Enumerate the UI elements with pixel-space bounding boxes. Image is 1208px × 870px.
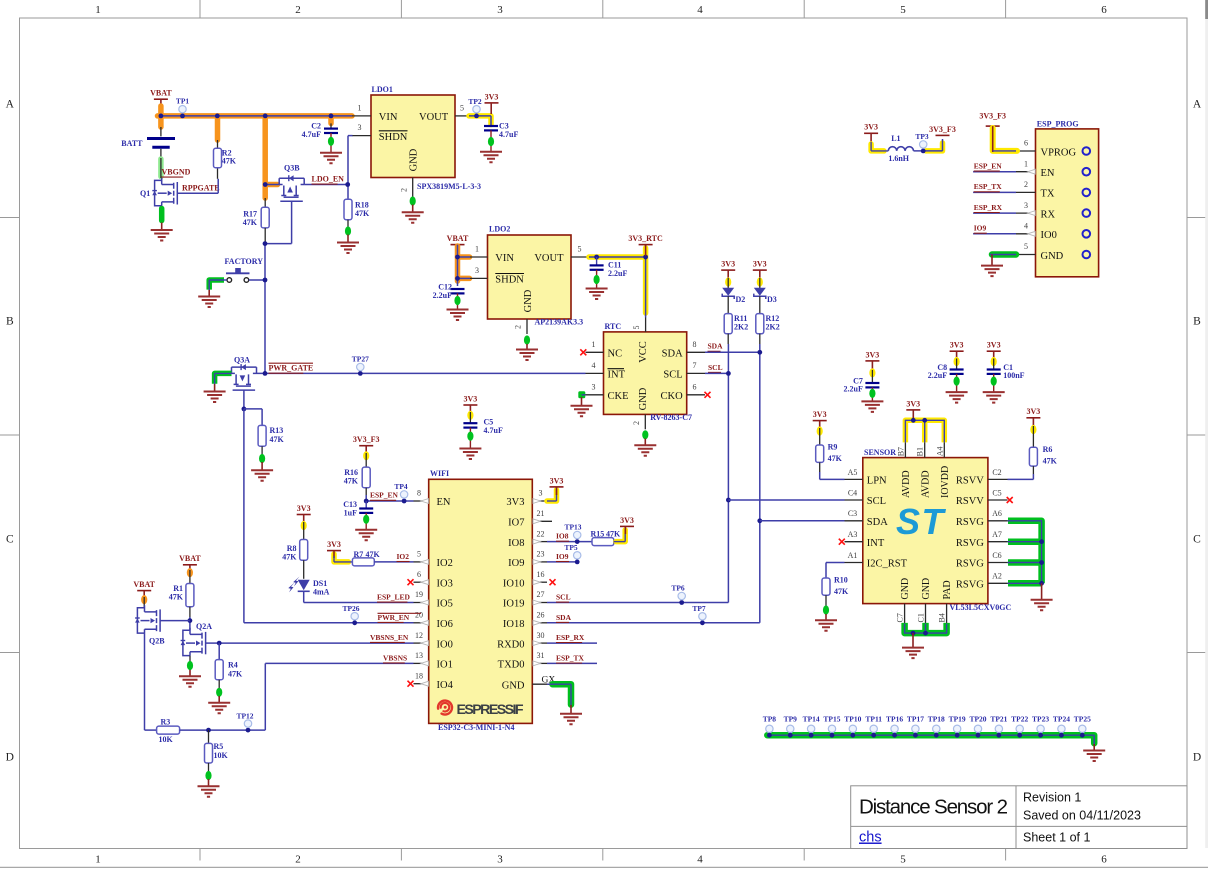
svg-text:ESP_EN: ESP_EN [974,162,1003,171]
wire Q3B source [265,184,279,186]
ground Q3A [204,392,226,403]
svg-text:C: C [1193,534,1201,546]
svg-text:GND: GND [921,578,932,600]
ground R5 [198,786,220,797]
title block [851,786,1187,849]
svg-text:RSVV: RSVV [956,476,984,487]
svg-text:TP27: TP27 [352,355,369,364]
testpoint TP24 [1058,725,1065,732]
svg-text:3V3: 3V3 [721,260,735,269]
WIFI pin 23 IO9 [532,561,547,563]
svg-text:FACTORY: FACTORY [225,257,264,266]
testpoint TP3 [920,141,927,148]
svg-text:47K: 47K [344,477,359,486]
svg-text:GND: GND [408,148,419,171]
WIFI pin 13 IO1 [414,662,429,664]
svg-text:5: 5 [578,245,582,254]
svg-text:3V3: 3V3 [485,92,499,101]
svg-text:VBAT: VBAT [447,234,469,243]
capacitor C11 [596,257,598,265]
svg-text:TP6: TP6 [671,584,685,593]
svg-text:PAD: PAD [942,580,953,599]
net 3V3_F3 elbow VPROG [993,128,1017,151]
svg-text:2: 2 [400,188,409,192]
svg-text:IO9: IO9 [508,558,524,569]
ground C12 [447,310,469,321]
svg-text:4.7uF: 4.7uF [302,130,321,139]
svg-text:RSVG: RSVG [956,559,984,570]
wire VBAT to LDO2 [457,245,459,286]
svg-text:10K: 10K [159,735,174,744]
svg-text:3V3: 3V3 [753,260,767,269]
svg-text:30: 30 [537,631,545,640]
svg-text:TP16: TP16 [886,714,903,723]
diode D3 [753,269,767,271]
SENSOR pin A4 IOVDD [943,442,945,457]
svg-text:SHDN: SHDN [495,275,524,286]
svg-text:IO18: IO18 [503,619,525,630]
svg-text:VBSNS: VBSNS [383,653,407,662]
svg-text:C3: C3 [848,509,857,518]
ground sensor [902,648,924,659]
svg-text:I2C_RST: I2C_RST [867,559,908,570]
ground C11 [586,289,608,300]
wire CKE to ground [578,391,585,398]
wire L1 to 3V3_F3 [926,143,943,151]
svg-text:C2: C2 [992,468,1001,477]
svg-text:TP13: TP13 [564,523,581,532]
net 3V3 at sensor AVDD [905,420,944,442]
LDO2 pin 1 VIN [470,256,488,258]
ESP_PROG pin 2 TX [1016,191,1036,193]
svg-text:VBSNS_EN: VBSNS_EN [370,633,409,642]
svg-text:TP14: TP14 [803,714,820,723]
svg-text:GND: GND [1041,251,1064,262]
ground R13 [251,470,273,481]
svg-text:RPPGATE: RPPGATE [182,184,220,193]
wire ESP_EN [365,495,367,501]
svg-text:A5: A5 [848,468,858,477]
ground WIFI [560,714,582,725]
wire ESP_LED [303,591,305,602]
wire IO9 to PROG [973,233,1016,235]
connector ESP_PROG box [1036,129,1099,277]
SENSOR pin B7 AVDD [904,442,906,457]
svg-text:RXD0: RXD0 [497,639,524,650]
svg-text:PWR_EN: PWR_EN [378,613,410,622]
ESP_PROG pin 1 EN [1016,171,1036,173]
resistor R2 [217,140,219,148]
testpoint TP26 [351,613,358,620]
RTC pin 8 SDA [687,351,705,353]
svg-text:SHDN: SHDN [379,132,408,143]
svg-text:VOUT: VOUT [534,253,564,264]
op-amp U-LDO1 box [371,95,455,178]
svg-text:NC: NC [608,349,623,360]
diode D2 [721,269,735,271]
svg-text:VCC: VCC [638,341,649,363]
svg-text:3: 3 [592,383,596,392]
svg-text:EN: EN [1041,168,1055,179]
transistor Q1 [155,178,178,206]
svg-text:RSVG: RSVG [956,517,984,528]
resistor R1 [186,584,194,607]
svg-text:C6: C6 [992,551,1001,560]
junction TP1 [180,114,185,119]
svg-text:5: 5 [632,326,641,330]
wire gate node to R13 [244,408,262,410]
svg-text:GND: GND [638,387,649,410]
ESP_PROG pin 4 IO0 [1016,233,1036,235]
svg-text:RX: RX [1041,209,1056,220]
wire Q3B gate down to R17 node [291,201,293,243]
LED DS1 [298,580,310,591]
svg-text:SCL: SCL [556,593,571,602]
svg-text:3: 3 [497,4,503,16]
svg-text:CKE: CKE [608,391,629,402]
WIFI pin 5 IO2 [414,561,429,563]
wire sensor GND bus [905,623,947,633]
svg-text:ESP_TX: ESP_TX [974,182,1003,191]
svg-text:1: 1 [1024,159,1028,168]
svg-text:47K: 47K [828,454,843,463]
svg-text:TP12: TP12 [236,711,253,720]
svg-text:2K2: 2K2 [734,323,748,332]
wire Q3A source to ground [215,373,232,383]
svg-text:R4: R4 [228,661,238,670]
svg-text:LPN: LPN [867,476,887,487]
capacitor C1 [987,350,1001,352]
svg-text:C4: C4 [848,488,857,497]
SENSOR pin A5 LPN [845,478,863,480]
svg-text:TP10: TP10 [844,714,861,723]
svg-text:RV-8263-C7: RV-8263-C7 [650,413,692,422]
power flag 3V3_F3 at L1 [936,134,950,136]
svg-text:VBGND: VBGND [162,168,191,177]
svg-text:2.2uF: 2.2uF [433,291,452,300]
power flag 3V3 at R15 [620,525,634,527]
svg-text:100nF: 100nF [1003,371,1024,380]
svg-text:2: 2 [632,421,641,425]
svg-text:TP19: TP19 [949,714,966,723]
svg-text:IO2: IO2 [437,558,453,569]
logo espressif [438,701,452,715]
svg-text:7: 7 [693,361,697,370]
resistor R11 [724,314,732,334]
wire SDA vertical bus [759,344,761,623]
testpoint TP5 [574,552,581,559]
svg-text:IO19: IO19 [503,599,525,610]
svg-text:IO9: IO9 [556,552,569,561]
no-connect SENSOR C5 [1007,497,1013,503]
svg-text:TP17: TP17 [907,714,924,723]
transistor Q2B [137,605,160,633]
svg-text:IO1: IO1 [437,660,453,671]
svg-text:23: 23 [537,550,545,559]
svg-text:VBAT: VBAT [133,580,155,589]
ESP_PROG pin 5 GND [1016,254,1036,256]
wire IO2 [374,561,413,563]
wire Q2B drain down [144,633,146,730]
testpoint TP23 [1037,725,1044,732]
svg-text:2: 2 [1024,180,1028,189]
power flag 3V3_F3 at R16 [359,445,373,447]
svg-text:TP9: TP9 [784,714,798,723]
svg-text:3V3: 3V3 [864,123,878,132]
svg-text:2.2uF: 2.2uF [928,371,947,380]
svg-text:INT: INT [608,370,626,381]
svg-text:1: 1 [475,245,479,254]
ground R18 [337,243,359,254]
RTC pin 3 CKE [586,394,604,396]
svg-text:A1: A1 [848,551,858,560]
junction SCL at sensor [726,498,731,503]
svg-text:IO4: IO4 [437,680,454,691]
svg-text:TP18: TP18 [928,714,945,723]
op-amp U-RTC box [604,332,687,415]
capacitor C8 [950,350,964,352]
svg-text:C: C [6,534,14,546]
resistor R17 [264,198,266,207]
svg-text:3V3_F3: 3V3_F3 [353,435,380,444]
SENSOR pin B4 PAD [946,604,948,624]
testpoint TP16 [891,725,898,732]
no-connect IO3 [408,579,414,585]
svg-text:RSVG: RSVG [956,580,984,591]
svg-text:4.7uF: 4.7uF [484,426,503,435]
power flag VBAT at Q2B [137,590,151,592]
net 3V3 elbow L1 [871,144,884,151]
testpoint TP15 [828,725,835,732]
op-amp U-LDO2 box [488,235,572,319]
svg-text:B4: B4 [938,613,947,622]
svg-text:4: 4 [697,4,703,16]
svg-text:3V3: 3V3 [464,394,478,403]
capacitor C3 [484,125,498,127]
svg-text:CKO: CKO [661,391,684,402]
ground LDO2 [516,350,538,361]
wire Q3B drain to LDO_EN node [304,184,348,186]
ground C13 [355,530,377,541]
svg-text:3V3: 3V3 [987,341,1001,350]
svg-text:Saved on 04/11/2023: Saved on 04/11/2023 [1023,809,1141,823]
svg-text:ESP_RX: ESP_RX [974,203,1003,212]
svg-text:Q2A: Q2A [196,622,212,631]
svg-text:R7: R7 [354,550,364,559]
junction Q3B source [263,182,268,187]
svg-text:IO10: IO10 [503,578,525,589]
WIFI pin 12 IO0 [414,642,429,644]
svg-text:R13: R13 [270,426,284,435]
capacitor C7 [865,360,879,362]
svg-text:TP4: TP4 [394,482,408,491]
junction VBAT stem [159,114,164,119]
svg-text:21: 21 [537,509,545,518]
wire ESP_TX to PROG [973,191,1016,193]
testpoint TP10 [849,725,856,732]
svg-text:TP25: TP25 [1074,714,1091,723]
svg-text:R6: R6 [1043,445,1053,454]
svg-text:PWR_GATE: PWR_GATE [269,364,314,373]
svg-text:ESP_EN: ESP_EN [370,491,399,500]
testpoint TP6 [678,592,685,599]
WIFI pin 6 IO3 [414,581,429,583]
net 3V3 at LDO1 output [469,116,491,125]
svg-text:5: 5 [1024,242,1028,251]
svg-text:SDA: SDA [867,517,888,528]
testpoint TP7 [699,613,706,620]
junction Q3A drain [263,371,268,376]
resistor R13 [258,425,266,446]
svg-text:26: 26 [537,611,545,620]
svg-text:SCL: SCL [708,363,723,372]
svg-text:R5: R5 [214,742,224,751]
LDO2 pin 3 SHDN [470,277,488,279]
battery BATT [160,127,162,136]
scrollbars [1205,0,1208,848]
wire 3V3_RTC [589,256,646,258]
ESP_PROG pin 6 VPROG [1016,150,1036,152]
svg-text:3V3: 3V3 [550,476,564,485]
junction SDA at sensor [757,518,762,523]
inductor L1 [888,147,913,151]
svg-text:TP7: TP7 [692,604,706,613]
net 3V3 at R15 [616,530,625,542]
wire PROG GND [992,251,1016,258]
svg-text:VPROG: VPROG [1041,147,1077,158]
LDO1 pin 1 VIN [352,115,371,117]
ground C5 [459,449,481,460]
svg-text:B: B [1193,316,1201,328]
svg-text:D3: D3 [767,295,777,304]
resistor R5 [208,730,210,743]
svg-text:3V3: 3V3 [950,341,964,350]
capacitor C13 [365,501,367,509]
LDO1 pin 5 VOUT [455,115,469,117]
testpoint TP4 [400,491,407,498]
testpoint TP9 [787,725,794,732]
svg-text:3V3: 3V3 [506,497,524,508]
svg-text:16: 16 [537,570,545,579]
wire VBAT rail [161,115,352,117]
svg-text:Q3A: Q3A [234,356,250,365]
ground C2 [320,153,342,164]
svg-text:D: D [1193,752,1201,764]
svg-text:SDA: SDA [662,349,683,360]
svg-text:VIN: VIN [495,253,514,264]
wire VBSNS_EN [219,642,413,644]
SENSOR pin C3 SDA [845,520,863,522]
svg-text:19: 19 [415,590,423,599]
svg-text:IO8: IO8 [508,538,524,549]
svg-text:SDA: SDA [708,342,724,351]
ground R10 [815,620,837,631]
resistor R12 [756,314,764,334]
svg-text:C5: C5 [992,488,1001,497]
svg-text:5: 5 [417,550,421,559]
net RSVG ground bus [1008,521,1042,584]
power flag 3V3 at TP2 [485,102,499,104]
svg-text:3V3: 3V3 [297,504,311,513]
ground RSVG [1031,600,1053,611]
svg-text:TP20: TP20 [969,714,986,723]
svg-text:47K: 47K [282,553,297,562]
resistor R9 [813,420,827,422]
svg-text:D: D [6,752,14,764]
svg-text:SENSOR: SENSOR [864,448,896,457]
wire R1 to gate node [189,617,191,630]
net 3V3 elbow R7 [334,554,349,562]
svg-text:chs: chs [859,830,882,846]
svg-text:RSVV: RSVV [956,496,984,507]
svg-text:18: 18 [415,671,423,680]
svg-text:8: 8 [693,340,697,349]
testpoint TP17 [912,725,919,732]
svg-text:D2: D2 [736,295,746,304]
svg-text:SPX3819M5-L-3-3: SPX3819M5-L-3-3 [417,182,481,191]
wire FACTORY to ground [209,280,224,290]
RTC pin 5 VCC [645,318,647,332]
svg-text:Q2B: Q2B [149,637,165,646]
SENSOR pin C2 RSVV [988,478,1008,480]
LDO1 pin 2 GND [412,178,414,197]
power flag 3V3 pin3 [550,486,564,488]
svg-text:47K: 47K [1043,457,1058,466]
resistor R10 [826,562,845,564]
RTC pin 1 NC [580,349,586,355]
wire FACTORY to net [249,279,265,281]
LDO1 pin 3 SHDN [352,135,371,137]
SENSOR pin C5 RSVV [988,499,1008,501]
svg-text:ESP_PROG: ESP_PROG [1037,120,1079,129]
resistor R15 [592,538,614,546]
svg-text:27: 27 [537,590,545,599]
svg-text:Q1: Q1 [140,189,150,198]
wire Q2B gate [160,620,190,622]
wire RTC SCL [705,372,728,374]
testpoint TP12 [244,720,251,727]
svg-text:Q3B: Q3B [284,164,300,173]
wire Q1 gate to R2 [177,192,218,194]
WIFI pin 3 3V3 [532,500,547,502]
svg-text:TP5: TP5 [564,543,578,552]
svg-text:4: 4 [697,854,703,866]
svg-text:A: A [6,99,15,111]
svg-text:3V3: 3V3 [1027,407,1041,416]
WIFI pin 20 IO6 [414,622,429,624]
svg-text:EN: EN [437,497,451,508]
svg-text:A4: A4 [935,447,944,457]
svg-text:1uF: 1uF [344,509,357,518]
svg-text:IO2: IO2 [397,552,410,561]
svg-text:4.7uF: 4.7uF [499,130,518,139]
op-amp U-WIFI box [429,479,533,723]
svg-text:1: 1 [95,854,101,866]
svg-text:GND: GND [523,289,534,312]
svg-text:5: 5 [900,4,906,16]
testpoint TP2 [473,106,480,113]
ground Q2A [179,676,201,687]
WIFI pin 8 EN [414,500,429,502]
svg-text:ESP_RX: ESP_RX [556,633,585,642]
svg-text:VBAT: VBAT [150,89,172,98]
ground R4 [208,703,230,714]
svg-text:2: 2 [295,854,301,866]
SENSOR pin A1 I2C_RST [845,562,863,564]
svg-text:R9: R9 [828,443,838,452]
no-connect IO10 [550,579,556,585]
junction R2 tap [215,114,220,119]
